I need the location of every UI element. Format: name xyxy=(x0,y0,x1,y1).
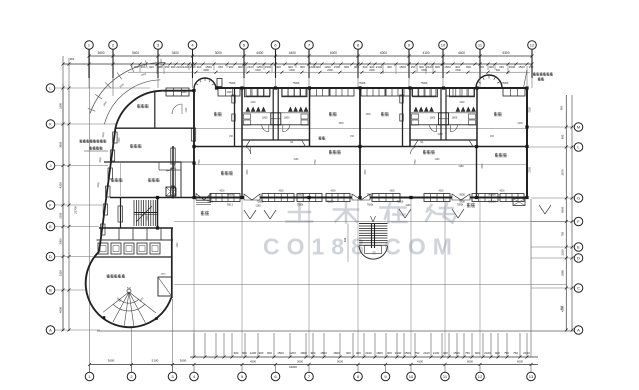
svg-text:7200: 7200 xyxy=(529,167,532,173)
svg-text:3000: 3000 xyxy=(215,51,222,55)
unit door arcs xyxy=(430,125,437,132)
svg-text:1800: 1800 xyxy=(333,351,340,355)
unit inner partitions xyxy=(410,112,477,114)
svg-text:1200: 1200 xyxy=(289,351,296,355)
svg-text:4500: 4500 xyxy=(499,191,505,193)
svg-text:600: 600 xyxy=(443,351,448,355)
axis 1 long grid line xyxy=(89,50,91,332)
svg-text:3400: 3400 xyxy=(172,51,179,55)
svg-text:J: J xyxy=(50,163,52,168)
svg-text:7500k: 7500k xyxy=(297,204,304,207)
svg-text:75008: 75008 xyxy=(359,82,366,85)
svg-text:900: 900 xyxy=(435,65,440,69)
bottom dimension line 2 xyxy=(90,364,539,366)
door arc room west of x194 xyxy=(166,162,175,171)
SE porch steps xyxy=(513,199,525,206)
svg-text:1160: 1160 xyxy=(255,205,261,208)
svg-text:3X6: 3X6 xyxy=(344,237,347,242)
svg-text:1200: 1200 xyxy=(250,351,257,355)
svg-text:1500: 1500 xyxy=(395,351,402,355)
vertical grid lines from top axes xyxy=(88,50,90,89)
top dimension line 3 xyxy=(128,71,530,73)
svg-text:4200: 4200 xyxy=(203,69,209,72)
svg-text:1500: 1500 xyxy=(455,69,461,72)
svg-text:2100: 2100 xyxy=(247,65,254,69)
svg-text:3870: 3870 xyxy=(561,169,565,175)
svg-text:4400: 4400 xyxy=(458,51,465,55)
corridor south wall xyxy=(194,146,527,148)
svg-text:3000: 3000 xyxy=(59,238,63,244)
left wing outer ticked arc xyxy=(90,63,165,114)
corner middle arc xyxy=(104,80,160,124)
unit A west service strip xyxy=(234,88,236,147)
window on x193 wall xyxy=(191,128,195,141)
south entry doors double leaf xyxy=(244,194,252,200)
kitchen wall y257 xyxy=(94,256,173,258)
svg-text:M: M xyxy=(577,125,580,130)
annotation left line1 xyxy=(80,139,83,142)
entrance canopy arc west xyxy=(194,78,216,89)
svg-text:150: 150 xyxy=(190,65,195,69)
svg-text:900: 900 xyxy=(561,134,565,139)
label corridor xyxy=(319,136,322,139)
svg-text:900: 900 xyxy=(356,351,361,355)
label huodongshi 3 xyxy=(423,150,426,154)
svg-text:D: D xyxy=(577,256,580,261)
svg-text:1500: 1500 xyxy=(421,69,427,72)
svg-text:900: 900 xyxy=(311,351,316,355)
svg-text:600: 600 xyxy=(475,351,480,355)
svg-text:G: G xyxy=(577,196,580,201)
stair left wing xyxy=(157,198,159,229)
small wall x181 xyxy=(180,162,182,198)
unit wash basins xyxy=(246,107,250,111)
left wing interior wall y128 xyxy=(115,127,194,129)
svg-text:900: 900 xyxy=(259,351,264,355)
slant wall windows xyxy=(113,132,117,143)
svg-text:900: 900 xyxy=(229,65,234,69)
left end dimension stubs xyxy=(62,56,64,84)
interior vertical wall x242 lower xyxy=(241,147,243,198)
terrace horizontal grid lines xyxy=(174,221,566,223)
svg-text:9000: 9000 xyxy=(337,359,343,363)
svg-text:600: 600 xyxy=(495,351,500,355)
svg-text:3600: 3600 xyxy=(108,359,115,363)
left wing interior wall y197.5 xyxy=(110,197,194,199)
right axis grid lines xyxy=(527,126,574,128)
unit wash basins xyxy=(414,107,418,111)
svg-text:4000: 4000 xyxy=(59,307,63,313)
svg-text:300: 300 xyxy=(171,65,176,69)
svg-text:4500: 4500 xyxy=(278,191,284,193)
svg-text:4500: 4500 xyxy=(250,359,256,363)
svg-text:6000: 6000 xyxy=(467,359,473,363)
svg-text:64800: 64800 xyxy=(289,365,297,369)
svg-text:1500: 1500 xyxy=(518,65,525,69)
svg-text:3600: 3600 xyxy=(297,359,303,363)
annotation top right line2 xyxy=(538,77,541,80)
svg-text:D: D xyxy=(49,254,52,259)
svg-text:1500: 1500 xyxy=(509,65,516,69)
unit B west service strip xyxy=(402,88,404,147)
north wall west segment xyxy=(162,90,194,92)
svg-text:300: 300 xyxy=(276,65,281,69)
svg-text:4100: 4100 xyxy=(417,359,423,363)
svg-text:150: 150 xyxy=(165,65,170,69)
svg-text:75008: 75008 xyxy=(367,193,374,196)
label qinshi 2 xyxy=(329,112,332,116)
svg-text:75008: 75008 xyxy=(293,82,300,85)
bathroom unit B xyxy=(409,88,411,147)
svg-text:2100: 2100 xyxy=(59,212,63,218)
svg-text:900: 900 xyxy=(149,65,154,69)
kitchen equipment boxes xyxy=(98,243,108,254)
interior vertical wall x360 xyxy=(359,88,361,198)
svg-text:9308: 9308 xyxy=(459,201,465,204)
kitchen dividers xyxy=(118,228,120,240)
svg-text:7500: 7500 xyxy=(315,159,317,165)
label huodongshi 4 xyxy=(495,153,498,157)
svg-text:1190: 1190 xyxy=(186,107,188,113)
unit toilet stalls xyxy=(413,88,438,97)
svg-text:900: 900 xyxy=(238,65,243,69)
svg-text:7500: 7500 xyxy=(199,159,201,165)
svg-text:4500: 4500 xyxy=(330,191,336,193)
svg-text:1500: 1500 xyxy=(399,65,406,69)
svg-text:1200: 1200 xyxy=(183,65,190,69)
south wall xyxy=(194,197,244,199)
svg-text:1150: 1150 xyxy=(437,133,443,136)
left wing rounded corner wall xyxy=(116,91,163,128)
north wall nodes xyxy=(240,86,243,89)
svg-text:2100: 2100 xyxy=(484,351,491,355)
svg-text:1160: 1160 xyxy=(405,204,411,207)
svg-text:75008: 75008 xyxy=(257,201,264,204)
svg-text:5100: 5100 xyxy=(152,359,159,363)
partition x120.5 xyxy=(120,162,122,196)
interior vertical wall x476.5 lower xyxy=(476,147,478,198)
label office 1 xyxy=(137,104,140,108)
svg-text:3600: 3600 xyxy=(482,163,484,169)
svg-text:600: 600 xyxy=(479,65,484,69)
svg-text:900: 900 xyxy=(489,65,494,69)
svg-text:7200: 7200 xyxy=(529,107,532,113)
south wall nodes xyxy=(240,196,243,199)
svg-text:10: 10 xyxy=(441,43,446,48)
unit door arcs xyxy=(262,125,269,132)
svg-text:900: 900 xyxy=(158,65,163,69)
svg-text:750: 750 xyxy=(513,351,518,355)
svg-text:2100: 2100 xyxy=(423,351,430,355)
svg-text:750: 750 xyxy=(465,351,470,355)
svg-text:1500: 1500 xyxy=(334,65,341,69)
svg-text:600: 600 xyxy=(197,65,202,69)
svg-text:5400: 5400 xyxy=(132,51,139,55)
svg-text:3300: 3300 xyxy=(59,270,63,276)
unit toilet stalls xyxy=(245,88,270,97)
annotation left line2 xyxy=(90,146,93,149)
svg-text:1500: 1500 xyxy=(277,351,284,355)
round hall east wall xyxy=(171,228,173,298)
annotation top right line1 xyxy=(533,72,536,75)
svg-text:4500: 4500 xyxy=(219,191,225,193)
svg-text:C: C xyxy=(577,286,580,291)
terrace column grid verticals xyxy=(193,199,195,357)
left wing slanted west wall xyxy=(99,128,115,252)
small room in hall xyxy=(158,277,172,296)
west porch step xyxy=(196,200,211,202)
label qinshi 4 xyxy=(494,112,497,116)
watermark tumu zaixian xyxy=(287,203,456,223)
svg-text:150: 150 xyxy=(411,65,416,69)
svg-text:12: 12 xyxy=(530,43,535,48)
courtyard stair xyxy=(359,223,388,225)
svg-text:600: 600 xyxy=(344,65,349,69)
site bottom boundary line xyxy=(97,330,574,332)
svg-text:1800: 1800 xyxy=(376,351,383,355)
unit door flares xyxy=(410,140,418,147)
svg-text:6000: 6000 xyxy=(517,359,523,363)
label zheyang west xyxy=(201,211,205,215)
svg-text:3600: 3600 xyxy=(97,51,104,55)
svg-text:75008: 75008 xyxy=(397,201,404,204)
label office 2 xyxy=(111,178,114,182)
courtyard stair semicircle xyxy=(359,246,388,259)
svg-text:4500: 4500 xyxy=(438,191,444,193)
bottom axis circles xyxy=(85,372,94,381)
svg-text:7500k: 7500k xyxy=(457,204,464,207)
corridor north grid line xyxy=(194,128,527,130)
left wing interior wall y162 xyxy=(104,161,181,163)
svg-text:A: A xyxy=(49,328,52,333)
label room x154 xyxy=(148,178,151,182)
svg-text:9000M: 9000M xyxy=(488,193,495,196)
svg-text:13: 13 xyxy=(529,374,534,379)
left wing interior wall x154.8 xyxy=(154,91,156,128)
svg-text:600: 600 xyxy=(387,351,392,355)
top dimension line 2 xyxy=(63,63,532,65)
svg-text:1800: 1800 xyxy=(320,351,327,355)
svg-text:1500: 1500 xyxy=(444,65,451,69)
svg-text:1160: 1160 xyxy=(294,159,300,161)
right dimension chain lines xyxy=(565,95,567,331)
top dense dimension row xyxy=(131,63,134,66)
top dimension line 1 xyxy=(89,55,532,57)
svg-text:900: 900 xyxy=(560,105,564,110)
svg-text:1118: 1118 xyxy=(227,91,233,94)
terrace swing marks xyxy=(244,210,250,219)
svg-text:E: E xyxy=(49,224,52,229)
svg-text:6000: 6000 xyxy=(380,51,387,55)
kitchen wall y240 xyxy=(97,239,174,241)
svg-text:4100: 4100 xyxy=(422,51,429,55)
svg-text:1500: 1500 xyxy=(365,114,371,116)
svg-text:75008: 75008 xyxy=(327,201,334,204)
svg-text:75008: 75008 xyxy=(229,82,236,85)
svg-text:150: 150 xyxy=(529,65,534,69)
svg-text:600: 600 xyxy=(560,305,564,310)
svg-text:1500: 1500 xyxy=(289,69,295,72)
svg-text:K: K xyxy=(49,122,52,127)
dumbwaiter shaft box xyxy=(166,187,176,196)
unit inner partitions xyxy=(242,112,310,114)
svg-text:300: 300 xyxy=(387,65,392,69)
svg-text:3600: 3600 xyxy=(180,359,187,363)
top axis circles xyxy=(85,41,94,50)
svg-text:750: 750 xyxy=(415,351,420,355)
kitchen wall y228 xyxy=(99,227,173,229)
left axis circles xyxy=(46,84,55,93)
svg-text:2100: 2100 xyxy=(376,65,383,69)
west wall of main wing xyxy=(172,146,174,199)
svg-text:6300: 6300 xyxy=(502,51,509,55)
svg-text:2100: 2100 xyxy=(426,65,433,69)
svg-text:2100: 2100 xyxy=(433,351,440,355)
svg-text:9308: 9308 xyxy=(459,193,465,196)
round hall wall xyxy=(86,252,172,328)
svg-text:2100: 2100 xyxy=(523,351,530,355)
svg-text:1500: 1500 xyxy=(338,123,344,125)
svg-text:960: 960 xyxy=(70,57,75,61)
svg-text:23700: 23700 xyxy=(74,206,78,214)
svg-text:2100: 2100 xyxy=(365,351,372,355)
svg-text:600: 600 xyxy=(496,69,501,72)
north wall window groups xyxy=(166,88,189,96)
entry double door west xyxy=(196,194,204,201)
svg-text:600: 600 xyxy=(466,65,471,69)
svg-text:900: 900 xyxy=(346,351,351,355)
svg-text:1800: 1800 xyxy=(430,117,436,120)
svg-text:9000M: 9000M xyxy=(488,201,495,204)
svg-text:1200: 1200 xyxy=(177,242,179,248)
interior vertical wall x194 xyxy=(193,91,195,199)
svg-text:3600: 3600 xyxy=(365,169,367,175)
svg-text:3300: 3300 xyxy=(59,103,63,109)
svg-text:600: 600 xyxy=(242,351,247,355)
svg-text:1800: 1800 xyxy=(452,117,458,120)
svg-text:1160: 1160 xyxy=(435,159,441,161)
svg-text:4400: 4400 xyxy=(289,51,296,55)
svg-text:2250: 2250 xyxy=(561,249,565,255)
svg-text:1800: 1800 xyxy=(300,351,307,355)
svg-text:1150: 1150 xyxy=(181,91,187,94)
svg-text:1800: 1800 xyxy=(262,117,268,120)
label meeting room xyxy=(130,144,133,148)
activity room mid grid line xyxy=(194,164,527,166)
svg-text:2400: 2400 xyxy=(250,102,256,104)
svg-text:600: 600 xyxy=(234,351,239,355)
svg-text:750: 750 xyxy=(504,351,509,355)
svg-text:4200: 4200 xyxy=(59,182,63,188)
svg-text:1150: 1150 xyxy=(458,165,464,168)
svg-text:2400: 2400 xyxy=(369,69,375,72)
unit center shaft xyxy=(439,113,449,125)
svg-text:12: 12 xyxy=(478,374,483,379)
south wall window groups xyxy=(210,194,240,202)
east wall top extension xyxy=(526,66,528,86)
svg-text:150: 150 xyxy=(218,65,223,69)
svg-text:3600: 3600 xyxy=(59,141,63,147)
svg-text:2400: 2400 xyxy=(517,123,523,125)
label multifunction hall xyxy=(107,274,110,278)
svg-text:600: 600 xyxy=(267,351,272,355)
bathroom unit A xyxy=(241,88,243,147)
svg-text:1350: 1350 xyxy=(161,274,167,276)
svg-text:2880: 2880 xyxy=(561,270,565,276)
west wall corner X window xyxy=(171,188,177,196)
label huodongshi 1 xyxy=(221,171,224,175)
svg-text:1200: 1200 xyxy=(309,65,316,69)
right axis circles xyxy=(574,123,583,132)
label qinshi 3 xyxy=(381,112,384,116)
svg-text:600: 600 xyxy=(316,65,321,69)
unit side boxes xyxy=(412,114,419,119)
label zheyang east xyxy=(467,203,471,207)
unit center shaft xyxy=(271,113,281,125)
svg-text:4500: 4500 xyxy=(389,191,395,193)
small box on wall at axis 4 xyxy=(217,79,222,87)
unit side boxes xyxy=(244,114,251,119)
svg-text:1500: 1500 xyxy=(404,351,411,355)
svg-text:1500: 1500 xyxy=(265,65,272,69)
svg-text:CO188.COM: CO188.COM xyxy=(263,234,459,260)
svg-text:950.2: 950.2 xyxy=(227,204,234,207)
svg-text:7500: 7500 xyxy=(415,159,417,165)
corridor door arcs xyxy=(243,147,251,155)
svg-text:750: 750 xyxy=(561,232,565,237)
door arc office xyxy=(172,104,182,114)
svg-text:75008: 75008 xyxy=(207,201,214,204)
svg-text:10: 10 xyxy=(409,374,414,379)
annotation top right leader xyxy=(524,70,528,88)
entrance canopy arc east xyxy=(476,75,502,88)
bottom dimension extension lines xyxy=(193,333,195,357)
svg-text:3300: 3300 xyxy=(119,137,121,143)
left dimension chain lines xyxy=(62,84,64,331)
svg-text:3300: 3300 xyxy=(147,215,149,221)
label qinshi 1 xyxy=(214,112,217,116)
svg-text:4400: 4400 xyxy=(256,51,263,55)
svg-text:1500: 1500 xyxy=(453,351,460,355)
bottom dimension line 1 xyxy=(190,356,538,358)
svg-text:900: 900 xyxy=(354,65,359,69)
east wall xyxy=(526,87,528,199)
stair window boxes on west wall xyxy=(118,206,123,222)
svg-text:B: B xyxy=(49,288,52,293)
north wall xyxy=(216,87,527,89)
svg-text:600: 600 xyxy=(300,65,305,69)
svg-text:75008: 75008 xyxy=(502,82,509,85)
svg-text:1500: 1500 xyxy=(255,69,261,72)
small wall y170 xyxy=(159,169,181,171)
svg-text:600: 600 xyxy=(363,65,368,69)
svg-text:6000: 6000 xyxy=(561,206,565,212)
svg-text:3600: 3600 xyxy=(247,169,249,175)
label huodongshi 2 xyxy=(329,150,332,154)
svg-text:1800: 1800 xyxy=(284,117,290,120)
left axis grid lines xyxy=(55,87,150,89)
svg-text:6000: 6000 xyxy=(330,51,337,55)
svg-text:E: E xyxy=(577,245,580,250)
round hall fan xyxy=(129,292,156,313)
svg-text:7500k: 7500k xyxy=(367,204,374,207)
unit door flares xyxy=(242,140,250,147)
svg-text:76008: 76008 xyxy=(227,193,234,196)
svg-text:2400: 2400 xyxy=(327,69,333,72)
svg-text:75008: 75008 xyxy=(421,82,428,85)
svg-text:A: A xyxy=(577,328,580,333)
svg-text:75008: 75008 xyxy=(297,193,304,196)
